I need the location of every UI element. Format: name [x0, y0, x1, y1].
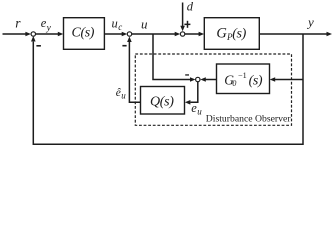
block Q(s) filter [141, 87, 185, 115]
wire Gp to y output [259, 32, 332, 37]
wire d input [180, 3, 185, 32]
node u_c label [112, 16, 123, 32]
node e_y label [41, 16, 52, 33]
summing junction S1 [31, 32, 35, 36]
svg-text:G: G [216, 25, 227, 41]
plus sign at S3 [184, 21, 190, 28]
block C(s) controller [64, 18, 105, 50]
svg-text:C(s): C(s) [72, 26, 95, 41]
block G0inv(s) inverse nominal model [217, 64, 270, 94]
svg-text:Q(s): Q(s) [150, 95, 174, 110]
wire y tap to G0inv [270, 77, 303, 82]
svg-text:u: u [197, 107, 202, 117]
wire Q(s) to S2 (e_u hat) [127, 37, 140, 103]
wire u branch to S4 [153, 34, 196, 82]
observer dashed box [135, 54, 291, 125]
svg-text:(s): (s) [249, 74, 263, 89]
wire S1 to C(s) [36, 32, 64, 37]
svg-text:0: 0 [232, 79, 236, 88]
minus sign at S4 [185, 74, 189, 75]
svg-text:u: u [121, 91, 126, 101]
summing junction S3 [180, 32, 184, 36]
wire S4 to Q(s) [185, 82, 198, 105]
svg-text:r: r [15, 15, 21, 30]
wire G0inv to S4 [200, 77, 216, 82]
svg-text:d: d [187, 0, 194, 14]
wire C(s) to S2 [104, 32, 127, 37]
svg-text:u: u [112, 16, 118, 30]
wire r input [3, 32, 31, 37]
minus sign at S2 [122, 45, 126, 47]
svg-text:c: c [118, 22, 122, 32]
svg-text:y: y [306, 15, 314, 30]
svg-text:(s): (s) [232, 26, 246, 41]
wire y feedback loop [31, 34, 303, 144]
summing junction S2 [127, 32, 131, 36]
node e_u hat label [116, 87, 127, 101]
svg-text:−1: −1 [238, 71, 247, 80]
svg-text:y: y [46, 23, 52, 33]
svg-text:Disturbance Observer: Disturbance Observer [206, 114, 292, 125]
node e_u label [191, 101, 202, 117]
block Gp(s) plant [204, 18, 259, 50]
svg-text:u: u [141, 16, 148, 31]
summing junction S4 [196, 77, 200, 81]
wire S2 to S3 [132, 32, 180, 37]
minus sign at S1 [36, 45, 41, 47]
wire S3 to Gp [185, 32, 204, 37]
